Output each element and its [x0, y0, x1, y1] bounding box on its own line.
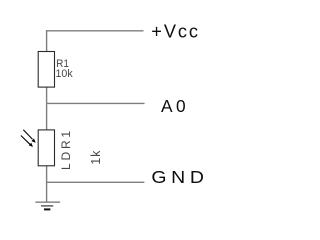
wire GND horizontal	[47, 181, 145, 183]
wire A0 horizontal	[47, 102, 145, 104]
LDR1 reference label (rotated)	[59, 128, 73, 170]
node label A0	[161, 96, 189, 116]
LDR1 body	[38, 130, 54, 166]
wire Vcc rail (top horizontal)	[46, 30, 144, 32]
svg-text:A0: A0	[161, 96, 189, 116]
node label GND	[151, 167, 208, 187]
ground symbol	[35, 202, 60, 209]
svg-text:1k: 1k	[89, 150, 103, 165]
wire vertical R1 to LDR1	[46, 87, 48, 130]
LDR1 light arrow upper	[23, 130, 35, 143]
svg-text:10k: 10k	[56, 68, 74, 80]
node label +Vcc	[151, 22, 200, 42]
LDR1 light arrow lower	[21, 136, 33, 148]
LDR1 value label 1k (rotated)	[89, 150, 103, 165]
wire vertical stub Vcc to R1	[46, 30, 48, 52]
resistor R1 value label 10k	[56, 68, 74, 80]
resistor R1 reference label	[56, 58, 69, 71]
svg-text:+Vcc: +Vcc	[151, 22, 200, 42]
svg-text:GND: GND	[151, 167, 208, 187]
wire vertical LDR1 to ground	[46, 166, 48, 203]
svg-text:LDR1: LDR1	[59, 128, 73, 170]
resistor R1 body	[38, 52, 54, 88]
